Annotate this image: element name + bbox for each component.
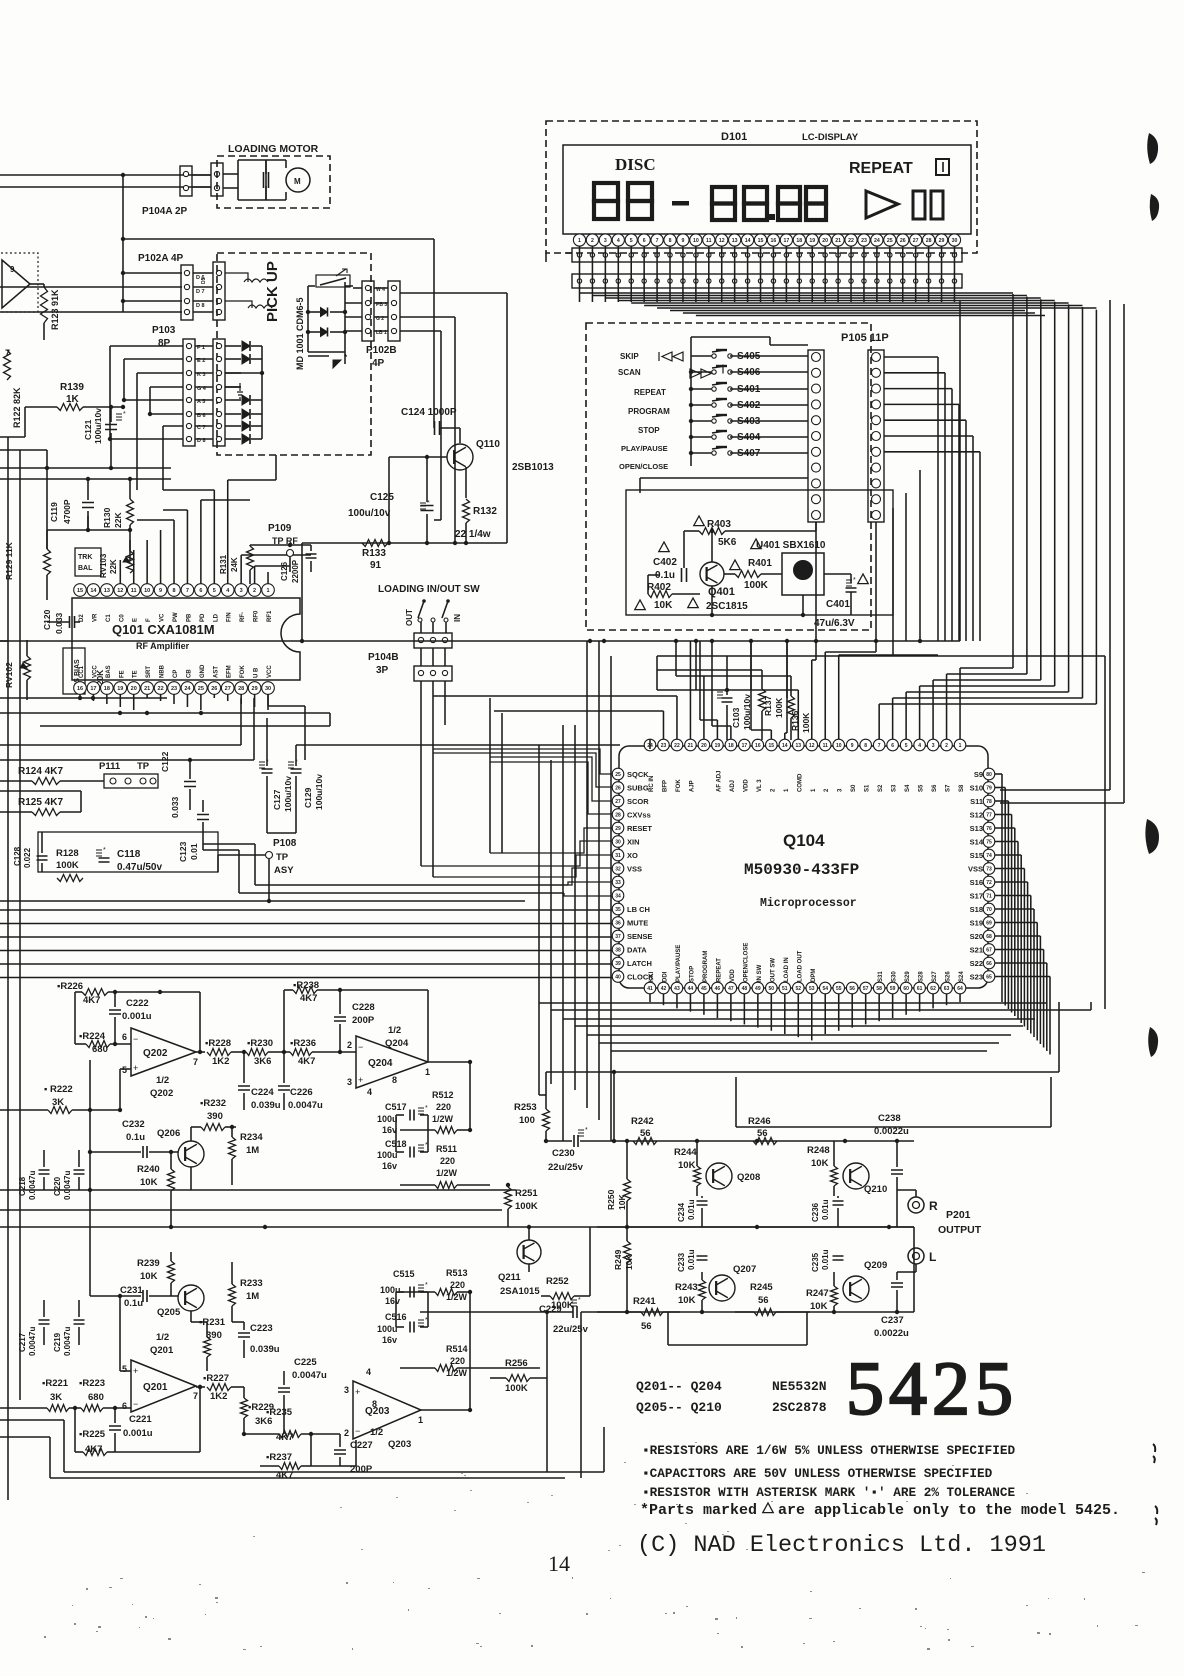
Q104 top pin wires [433,641,938,749]
svg-text:DPM: DPM [811,969,817,982]
wire P102A pin1 [123,272,182,274]
svg-text:100u: 100u [377,1114,398,1124]
svg-text:PROGRAM: PROGRAM [703,951,709,982]
svg-text:TP: TP [276,852,289,863]
capacitor C516 100u 16v [377,1312,428,1345]
frame wire bottom A [64,1420,604,1472]
svg-text:S10: S10 [970,784,983,793]
svg-text:M50930-433FP: M50930-433FP [744,861,859,879]
label D101 [721,131,747,143]
svg-text:100u/10v: 100u/10v [93,408,103,444]
svg-text:91: 91 [370,560,382,571]
svg-text:4: 4 [617,238,620,244]
label 1/2 Q201 [150,1332,174,1356]
svg-text:AST: AST [213,666,219,678]
svg-text:R242: R242 [631,1116,654,1127]
svg-text:20: 20 [131,686,137,692]
resistor R230 3K6 [238,1038,284,1067]
svg-text:22K: 22K [109,559,118,574]
svg-text:8: 8 [864,743,867,749]
svg-text:8P: 8P [158,338,171,349]
svg-text:P111: P111 [99,761,121,772]
svg-text:68: 68 [986,934,992,940]
svg-text:10K: 10K [678,1295,696,1306]
svg-text:L: L [929,1250,936,1264]
note resistors [642,1443,1015,1458]
svg-text:76: 76 [986,826,992,832]
svg-text:16v: 16v [382,1161,397,1171]
svg-text:8: 8 [669,238,672,244]
svg-text:D 8: D 8 [197,438,206,444]
svg-text:5: 5 [630,238,633,244]
wires pickup to P102B [345,288,362,331]
svg-text:C119: C119 [49,502,59,522]
svg-text:SRT: SRT [146,666,152,678]
svg-text:−: − [133,1034,138,1044]
svg-text:AF ADJ: AF ADJ [716,771,722,792]
connector P102B 4P [362,281,400,341]
svg-text:FOK: FOK [676,779,682,792]
transistor Q208 [706,1163,760,1189]
Q104 left pin hook wires [0,749,612,978]
svg-text:RV103: RV103 [99,553,108,578]
svg-text:60: 60 [903,986,909,992]
svg-text:42: 42 [661,986,667,992]
label 1/2 Q204 [385,1025,409,1085]
wire P102B to right [400,317,457,545]
Q101 top pins [74,584,275,597]
svg-text:P104A 2P: P104A 2P [142,206,188,217]
svg-text:P102A 4P: P102A 4P [138,253,184,264]
svg-text:NE5532N: NE5532N [772,1379,827,1394]
svg-text:C237: C237 [881,1315,904,1326]
transistor Q401 [700,562,724,586]
svg-text:16v: 16v [385,1296,400,1306]
capacitor C233 0.01u [677,1249,708,1272]
svg-text:AJP: AJP [689,780,695,792]
svg-text:LD: LD [213,613,219,622]
wire y670 above Q104 [657,669,762,671]
resistor R226 4K7 [57,981,200,1006]
output mid rail [597,1226,914,1228]
svg-text:R247: R247 [806,1288,829,1299]
resistor R133 91 [362,540,388,572]
capacitor C125 100u/10v [348,457,434,543]
LC display dashed box [546,121,977,253]
svg-text:R130: R130 [102,507,112,528]
capacitor C218 0.0047u [18,1150,50,1200]
svg-text:BAL: BAL [78,565,93,572]
label Q201--Q204 NE5532N [636,1379,827,1394]
svg-text:R122 82K: R122 82K [12,387,22,428]
svg-text:STOP: STOP [689,966,695,982]
svg-text:4700P: 4700P [62,499,72,524]
output frame wires [668,1312,807,1345]
transistor Q211 [498,1240,541,1297]
svg-text:56: 56 [758,1295,769,1306]
svg-text:23: 23 [661,743,667,749]
capacitor C223 0.039u [232,1322,280,1358]
svg-text:12: 12 [719,238,725,244]
svg-text:S1: S1 [865,784,871,792]
capacitor C222 0.001u [109,990,152,1044]
svg-text:1/2W: 1/2W [432,1114,454,1124]
svg-text:C231: C231 [120,1285,143,1296]
svg-text:2SA1015: 2SA1015 [500,1286,540,1297]
svg-text:8: 8 [172,588,175,594]
svg-text:PB: PB [186,613,192,622]
LED in pickup [308,352,348,368]
jack R [908,1197,938,1213]
svg-text:6: 6 [122,1032,127,1042]
svg-text:+: + [133,1063,138,1073]
capacitor C221 0.001u [109,1408,153,1452]
binder mark 3 [1145,819,1159,854]
svg-text:100u/10v: 100u/10v [314,774,324,810]
svg-text:3P: 3P [376,665,389,676]
svg-text:100: 100 [519,1115,535,1126]
label M50930-433FP [744,861,859,879]
svg-text:59: 59 [890,986,896,992]
svg-text:VC: VC [160,613,166,622]
svg-text:0.0022u: 0.0022u [874,1328,909,1339]
svg-text:4K7: 4K7 [300,993,317,1004]
svg-text:C238: C238 [878,1113,901,1124]
svg-text:C220: C220 [53,1176,62,1196]
svg-text:VDD: VDD [730,969,736,982]
svg-text:0.0047u: 0.0047u [28,1171,37,1200]
right vertical bus [1013,294,1096,704]
svg-text:A 5: A 5 [197,399,205,405]
capacitor in motor box [264,160,269,200]
svg-text:64: 64 [957,986,963,992]
svg-text:PD: PD [200,613,206,622]
svg-text:3: 3 [347,1077,352,1087]
svg-text:DATA: DATA [627,946,647,955]
svg-text:SENSE: SENSE [627,932,652,941]
svg-text:ASY: ASY [274,865,294,876]
copyright line [637,1532,1046,1559]
svg-text:C120: C120 [42,609,52,630]
svg-text:M: M [294,177,301,186]
frame verticals [547,1312,604,1478]
svg-text:R139: R139 [60,382,84,393]
label P102B 4P [366,345,397,369]
svg-text:16: 16 [771,238,777,244]
bus y713 [0,711,330,715]
resistor R225 4K7 [75,1385,202,1456]
wire Q110 base line [387,455,447,545]
bus verticals right [546,1002,1091,1127]
label 22 1/4w [455,529,491,540]
svg-text:SUBG: SUBG [627,784,649,793]
svg-text:SCAN: SCAN [618,368,641,377]
svg-text:7: 7 [186,588,189,594]
bottom routing bus [539,1003,1091,1051]
svg-text:*: * [578,1297,581,1304]
svg-text:ADJ: ADJ [730,780,736,792]
FCS BIAS box [63,648,85,694]
svg-text:P104B: P104B [368,652,399,663]
Q104 right pin wires [995,774,1050,1055]
svg-text:C125: C125 [370,492,394,503]
svg-text:1/2: 1/2 [388,1025,401,1036]
note capacitors [642,1466,993,1481]
svg-text:0.01: 0.01 [189,843,199,860]
svg-text:7: 7 [193,1391,198,1401]
R513 wiring [400,1292,540,1368]
Q104 right pins [983,768,995,982]
capacitor C234 0.01u [677,1196,708,1227]
svg-text:53: 53 [809,986,815,992]
svg-text:40: 40 [615,975,621,981]
svg-text:0.0047u: 0.0047u [63,1327,72,1356]
svg-text:SKIP: SKIP [620,352,639,361]
resistor R240 10K [137,1150,175,1227]
svg-text:100u: 100u [380,1285,401,1295]
svg-text:IN: IN [453,614,462,622]
svg-text:*: * [103,847,106,854]
svg-text:C229: C229 [539,1304,562,1315]
svg-text:D 8: D 8 [196,303,205,309]
capacitor C238 0.0022u [874,1113,909,1227]
capacitor C226 0.0047u [278,1052,323,1111]
svg-text:REPEAT: REPEAT [716,958,722,982]
svg-text:REPEAT: REPEAT [634,388,666,397]
svg-text:*: * [425,1282,428,1289]
svg-text:61: 61 [917,986,923,992]
svg-text:R239: R239 [137,1258,160,1269]
svg-text:FE: FE [119,670,125,678]
svg-text:220: 220 [440,1156,455,1166]
resistor R237 4K7 [260,1434,311,1481]
svg-text:FOK: FOK [240,665,246,678]
svg-text:CP: CP [173,670,179,678]
resistor R229 3K6 [241,1387,275,1434]
label Q205--Q210 2SC2878 [636,1400,827,1415]
seven segment digit 3 [712,187,735,220]
svg-text:RC IN: RC IN [649,776,655,792]
svg-text:390: 390 [206,1330,222,1341]
svg-text:0.47u/50v: 0.47u/50v [117,862,162,873]
svg-text:BFP: BFP [662,780,668,792]
svg-text:67: 67 [986,948,992,954]
svg-text:C401: C401 [826,599,850,610]
resistor R246 56 [748,1116,777,1145]
svg-text:0.01u: 0.01u [821,1199,830,1220]
svg-text:R252: R252 [546,1276,569,1287]
svg-text:Microprocessor: Microprocessor [760,897,857,910]
svg-text:10K: 10K [140,1271,158,1282]
wire C229 rail [420,1310,573,1314]
svg-text:79: 79 [986,786,992,792]
bus y698 [0,696,167,700]
wire left bus rows [0,407,47,468]
svg-text:0.1u: 0.1u [124,1298,143,1309]
label 2SB1013 [512,462,554,473]
svg-text:P201: P201 [946,1209,971,1221]
label REPEAT [849,159,949,177]
C517 wiring [396,1062,470,1152]
svg-text:1: 1 [425,1067,430,1077]
capacitor C517 100u 16v [377,1102,428,1135]
svg-text:C 7: C 7 [197,425,206,431]
svg-text:Q201: Q201 [143,1382,168,1393]
svg-text:D 6: D 6 [196,275,205,281]
label LOADING IN/OUT SW [378,584,480,595]
svg-text:0.0047u: 0.0047u [292,1370,327,1381]
svg-text:CB: CB [186,669,192,678]
P105 bottom drops [816,470,920,656]
svg-text:22u/25v: 22u/25v [548,1162,584,1173]
svg-text:1/2: 1/2 [156,1332,169,1343]
resistor R235 4K7 [242,1407,340,1443]
svg-text:6: 6 [199,588,202,594]
svg-text:IN SW: IN SW [757,964,763,982]
svg-text:LOAD OUT: LOAD OUT [797,950,803,982]
transistor Q206 [157,1128,204,1167]
svg-text:C0: C0 [119,614,125,622]
Q101 right wires [241,694,305,760]
svg-text:P102B: P102B [366,345,397,356]
svg-text:Q101 CXA1081M: Q101 CXA1081M [112,622,215,637]
svg-text:43: 43 [674,986,680,992]
pick up dashed box [217,253,371,455]
resistor R252 100K [546,1276,574,1311]
svg-text:G 4: G 4 [197,386,207,392]
svg-text:13: 13 [795,743,801,749]
Q401 wiring [640,478,851,617]
svg-text:Q203: Q203 [365,1406,390,1417]
resistor R239 10K [137,1252,175,1296]
svg-text:Q208: Q208 [737,1172,760,1183]
resistor R250 10K [606,1141,631,1227]
resistor R136 100K [788,676,812,740]
svg-text:VR: VR [92,613,98,622]
capacitor C402 0.1u [653,542,687,582]
svg-text:8: 8 [392,1075,397,1085]
svg-text:27: 27 [225,686,231,692]
svg-text:14: 14 [90,588,97,594]
svg-text:RF1: RF1 [267,610,273,622]
label U401 SBX1610 [756,540,826,551]
svg-text:21: 21 [688,743,694,749]
svg-text:C218: C218 [18,1176,27,1196]
wire Q204 output [428,1060,472,1064]
switches S405-S407 [712,350,761,459]
svg-text:C127: C127 [272,789,282,810]
svg-text:R243: R243 [675,1282,698,1293]
svg-text:S2: S2 [878,784,884,792]
svg-text:R240: R240 [137,1164,160,1175]
svg-text:R244: R244 [674,1147,697,1158]
label PICK UP [264,261,281,322]
svg-text:R128: R128 [56,848,79,859]
svg-text:0.0047u: 0.0047u [288,1100,323,1111]
resistor R234 1M [229,1125,264,1185]
label P104A 2P [142,206,188,217]
svg-text:11: 11 [706,238,712,244]
long wire y641 [0,639,960,643]
svg-text:2SC2878: 2SC2878 [772,1400,827,1415]
svg-text:C234: C234 [677,1202,686,1222]
resistor R224 680 [75,1031,131,1055]
svg-text:10: 10 [144,588,150,594]
wire right bus drop [959,300,961,641]
svg-text:22 1/4w: 22 1/4w [455,529,491,540]
label P103 8P [152,325,176,349]
svg-text:▪R237: ▪R237 [266,1452,292,1463]
svg-text:PROGRAM: PROGRAM [628,407,670,416]
capacitor C123 0.01 [178,800,209,862]
binder mark 5 [1153,1444,1155,1463]
svg-text:80: 80 [986,772,992,778]
svg-text:3: 3 [932,743,935,749]
svg-text:11: 11 [131,588,137,594]
seven segment dash [672,201,689,206]
svg-text:58: 58 [876,986,882,992]
capacitor C121 100u/10v [83,405,126,468]
svg-text:C126: C126 [280,561,289,581]
Q101 bottom pin wires [80,694,268,710]
svg-text:OUT SW: OUT SW [770,958,776,982]
svg-text:17: 17 [90,686,96,692]
wire mid rail y1227 [0,1225,914,1229]
svg-text:Q206: Q206 [157,1128,180,1139]
svg-text:C225: C225 [294,1357,317,1368]
capacitor C518 100u 16v [377,1139,428,1171]
connector P105 11P [808,350,884,522]
verticals corridor [490,641,611,1051]
svg-text:5: 5 [213,588,216,594]
svg-text:STOP: STOP [638,426,660,435]
C118 loop box [38,832,218,872]
resistor R242 56 [631,1116,657,1145]
svg-text:26: 26 [615,786,621,792]
label LC-DISPLAY [802,132,859,143]
svg-text:2: 2 [347,1040,352,1050]
svg-text:VCC: VCC [267,665,273,678]
P108 wire drop [267,859,271,903]
resistor R139 1K [25,382,125,411]
key labels [618,352,723,471]
svg-text:VCC: VCC [92,665,98,678]
capacitor C225 0.0047u [278,1357,327,1434]
resistor R227 1K2 [198,1373,244,1402]
variable resistor in pickup [316,269,350,287]
svg-text:VDD: VDD [743,779,749,792]
svg-text:C1: C1 [106,614,112,622]
resistor R249 10K [613,1227,634,1312]
binder mark 6 [1155,1506,1157,1525]
resistor R248 10K [807,1141,838,1196]
svg-text:S31: S31 [878,971,884,982]
svg-text:33: 33 [615,880,621,886]
svg-text:29: 29 [252,686,258,692]
svg-text:100K: 100K [774,697,784,718]
note parts marked [640,1502,1120,1519]
svg-text:75: 75 [986,840,992,846]
capacitor C236 0.01u [811,1196,844,1227]
svg-text:COMD: COMD [797,773,803,792]
svg-text:PICK UP: PICK UP [264,261,281,322]
svg-text:100u: 100u [377,1150,398,1160]
LC display connector strip B [572,274,962,288]
resistor R123 91K [41,287,61,330]
svg-text:17: 17 [742,743,748,749]
svg-text:*: * [585,1127,588,1134]
svg-text:S30: S30 [892,971,898,982]
